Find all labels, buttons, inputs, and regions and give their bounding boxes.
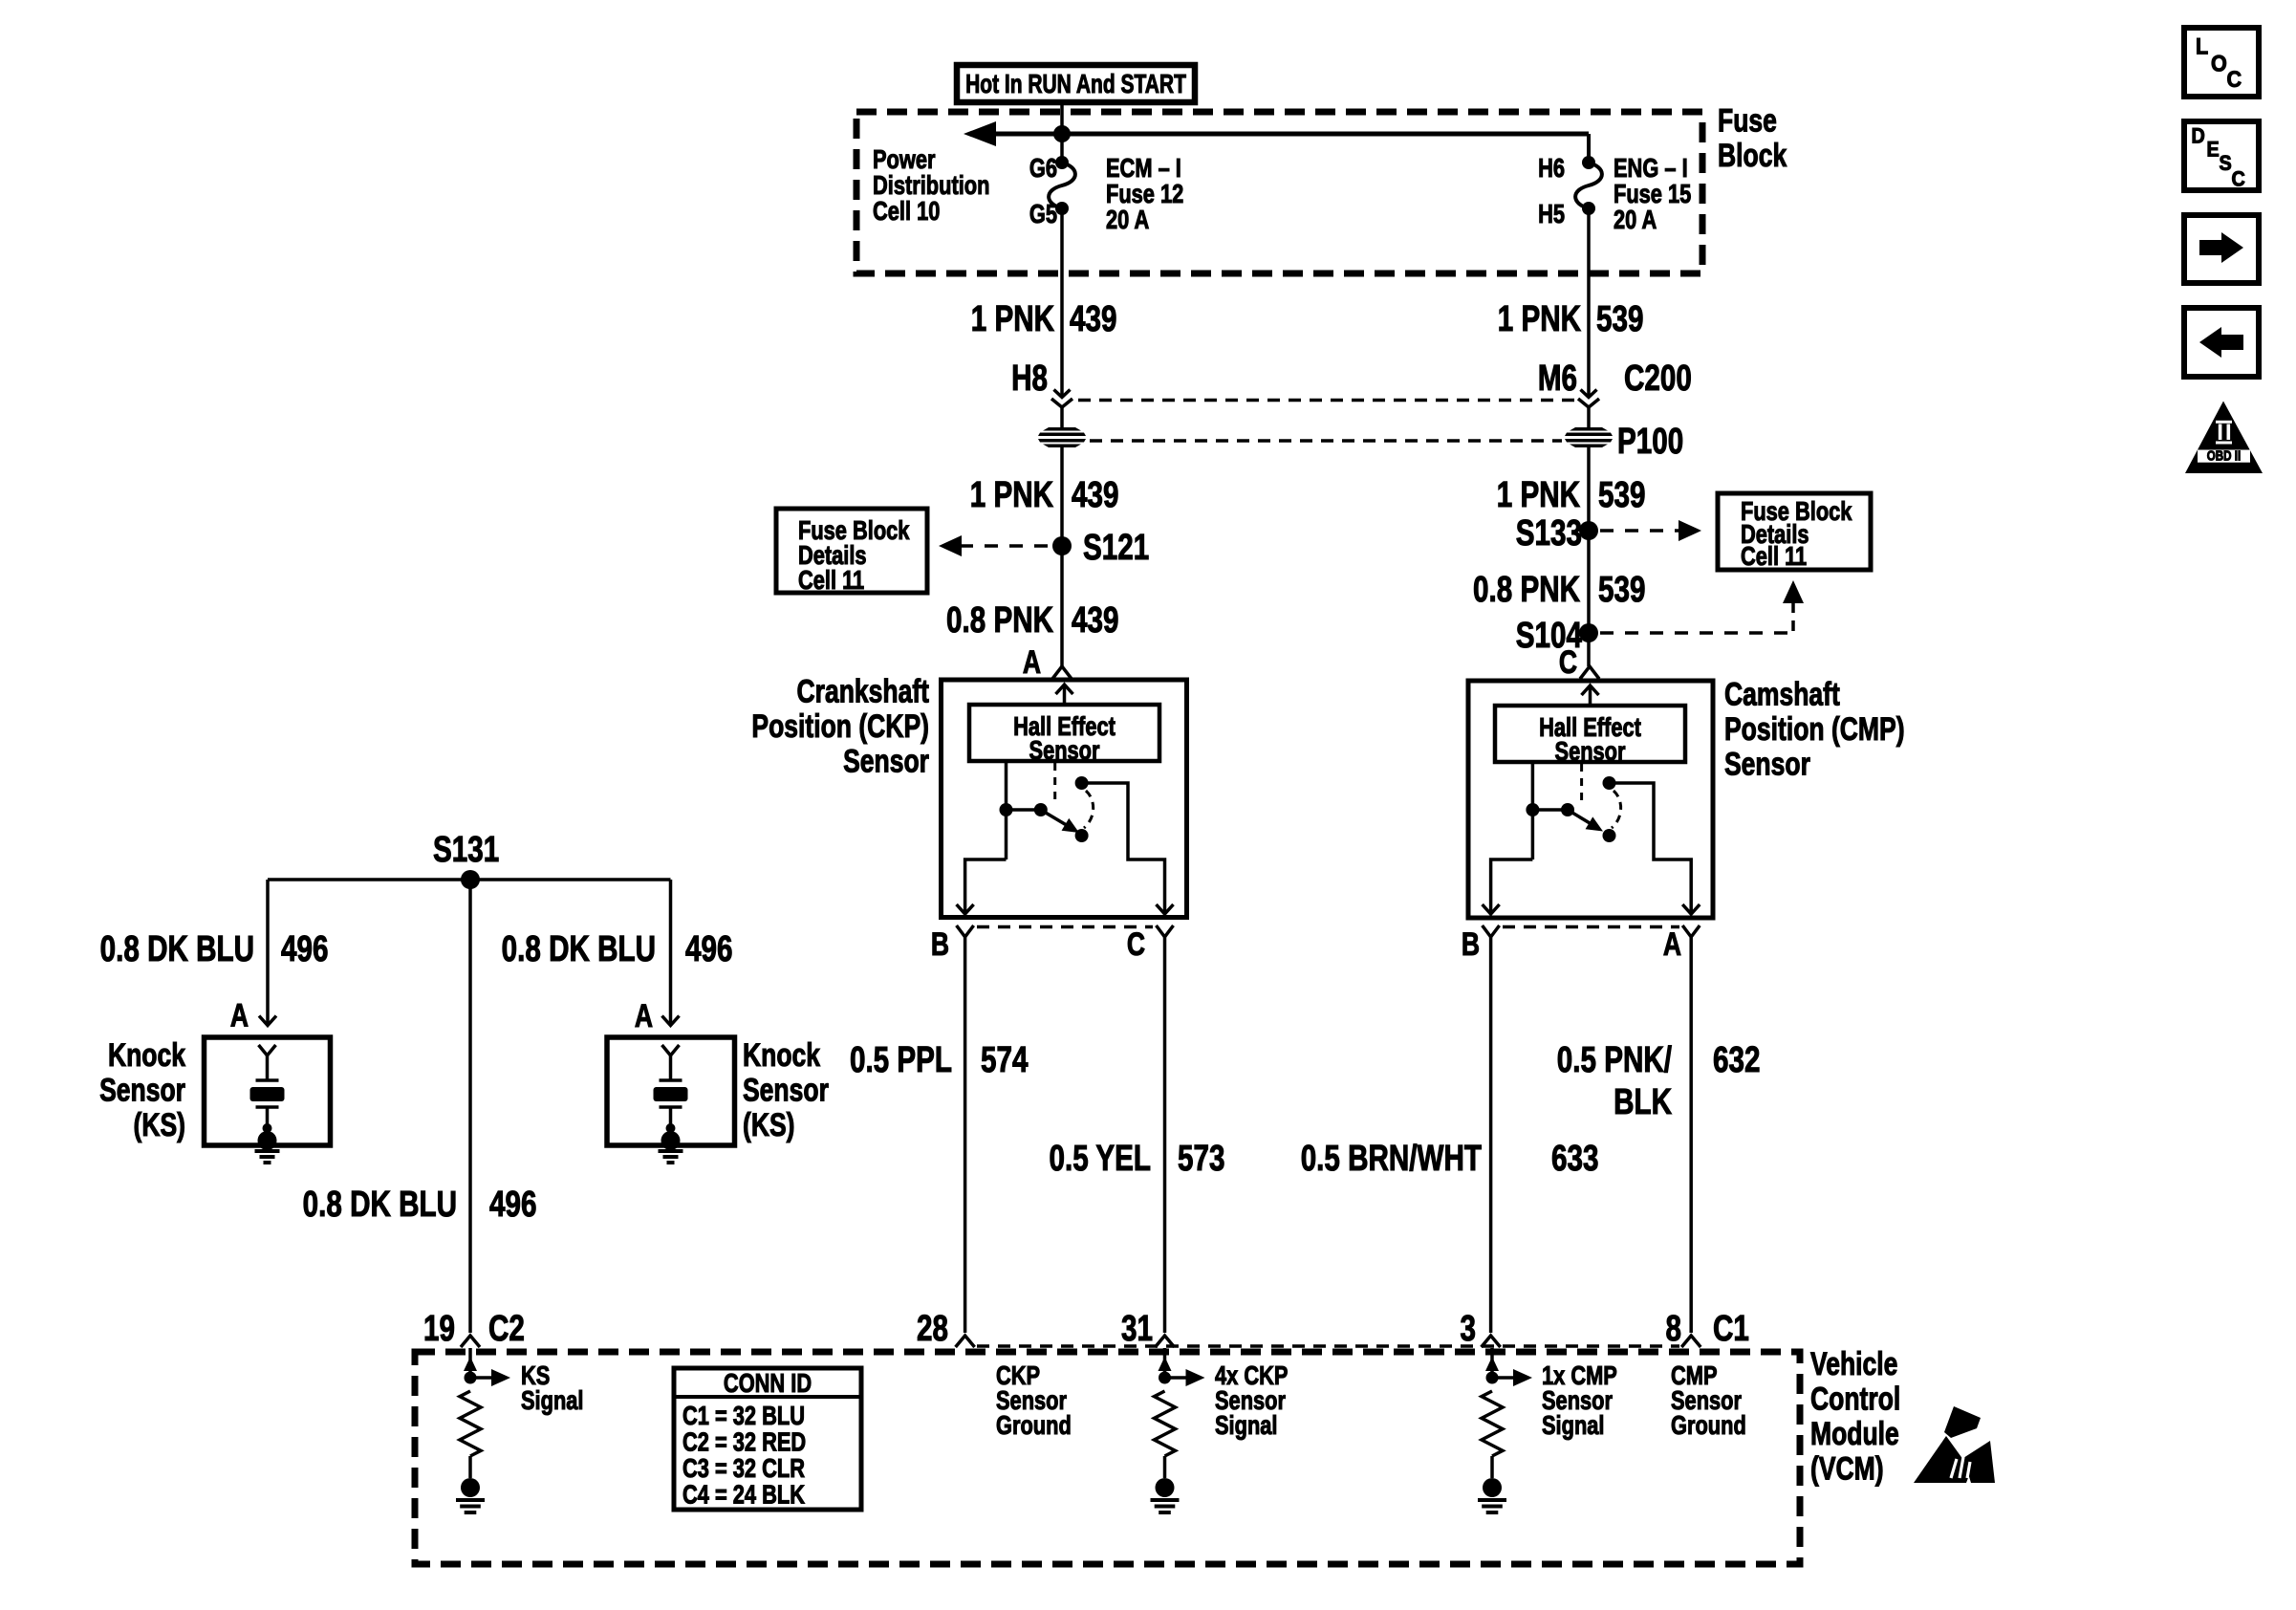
- label: power distribution cell 10: [873, 144, 989, 226]
- svg-text:G5: G5: [1029, 199, 1057, 228]
- svg-text:Cell 11: Cell 11: [1741, 541, 1807, 571]
- svg-text:Sensor: Sensor: [743, 1072, 829, 1108]
- CMP sensor label: [1724, 676, 1905, 782]
- label: M6 C200: [1538, 359, 1692, 399]
- wire: CMP pin B to VCM 3: [1489, 937, 1493, 1333]
- svg-text:496: 496: [281, 929, 328, 969]
- CKP sensor label: [751, 673, 929, 779]
- splice S104: [1516, 616, 1598, 656]
- connector P100 right symbol: [1565, 427, 1613, 447]
- svg-text:1 PNK: 1 PNK: [1498, 299, 1582, 339]
- svg-text:S: S: [2220, 152, 2232, 175]
- svg-text:439: 439: [1072, 475, 1118, 515]
- svg-text:20 A: 20 A: [1106, 205, 1149, 234]
- connector C200 dashed line: [1078, 399, 1575, 402]
- svg-text:0.8 DK BLU: 0.8 DK BLU: [303, 1185, 457, 1225]
- arrow into left knock sensor: [230, 997, 276, 1033]
- wire: knock sensor bus: [268, 880, 671, 1025]
- label: CMP Sensor Ground: [1671, 1360, 1746, 1440]
- svg-text:0.8 DK BLU: 0.8 DK BLU: [502, 929, 656, 969]
- pin 3: [1461, 1309, 1501, 1349]
- dashed arrow to left details box: [939, 535, 1051, 556]
- VCM connector dashed line: [977, 1344, 1679, 1348]
- wire: hot feed down from box: [1060, 102, 1064, 163]
- label: 1x CMP Sensor Signal: [1542, 1360, 1617, 1440]
- CKP sensor box: [942, 680, 1187, 918]
- svg-text:Position (CKP): Position (CKP): [751, 708, 929, 745]
- svg-text:3: 3: [1461, 1309, 1476, 1349]
- pin 28: [917, 1309, 975, 1349]
- svg-text:Signal: Signal: [1215, 1410, 1277, 1440]
- svg-text:CONN ID: CONN ID: [724, 1368, 812, 1398]
- ESD sensitivity icon: [1914, 1406, 1995, 1483]
- pin 8 C1: [1666, 1309, 1749, 1349]
- svg-text:S131: S131: [433, 830, 499, 870]
- svg-text:1 PNK: 1 PNK: [1497, 475, 1581, 515]
- svg-text:574: 574: [981, 1040, 1028, 1080]
- svg-text:0.5 BRN/WHT: 0.5 BRN/WHT: [1301, 1139, 1482, 1179]
- CMP internal switch circuit: [1483, 762, 1700, 914]
- icon: DESC box: [2184, 121, 2259, 191]
- svg-text:Module: Module: [1810, 1416, 1899, 1452]
- svg-text:C4 = 24 BLK: C4 = 24 BLK: [682, 1480, 805, 1510]
- icon: LOC box: [2184, 28, 2259, 97]
- knock sensor label (right): [743, 1037, 829, 1143]
- svg-text:19: 19: [423, 1309, 455, 1349]
- svg-text:H5: H5: [1538, 199, 1565, 228]
- svg-text:1 PNK: 1 PNK: [971, 299, 1055, 339]
- svg-text:H6: H6: [1538, 153, 1565, 183]
- svg-text:Block: Block: [1718, 138, 1787, 174]
- hall effect sensor box (CKP): [969, 705, 1159, 766]
- svg-text:Signal: Signal: [1542, 1410, 1604, 1440]
- svg-text:C2: C2: [488, 1309, 525, 1349]
- svg-text:B: B: [1462, 926, 1480, 963]
- CKP power arrow into hall box: [1056, 685, 1073, 705]
- svg-text:BLK: BLK: [1614, 1082, 1672, 1122]
- svg-text:0.5 PPL: 0.5 PPL: [850, 1040, 952, 1080]
- svg-text:Ground: Ground: [1671, 1410, 1746, 1440]
- CKP pins B and C: [931, 925, 1174, 963]
- svg-text:A: A: [1663, 926, 1681, 963]
- CONN ID table: [674, 1368, 861, 1510]
- dashed arrow from S104 up to details box: [1600, 580, 1804, 633]
- label: 0.8 DK BLU 496 (right): [502, 929, 733, 969]
- fuse block details callout box (right): [1718, 493, 1871, 572]
- connector C200 right terminals: [1578, 390, 1599, 428]
- connector P100 dashed line: [1090, 439, 1562, 443]
- svg-text:8: 8: [1666, 1309, 1681, 1349]
- fuse F15 ENG-I 20A (pins H6/H5): [1538, 153, 1691, 234]
- label: 1 PNK 439: [971, 299, 1117, 339]
- splice S131: [433, 830, 499, 889]
- svg-text:0.5 YEL: 0.5 YEL: [1049, 1139, 1151, 1179]
- wire: 0.8 PNK 439 down to CKP: [1060, 447, 1064, 666]
- svg-text:Vehicle: Vehicle: [1810, 1346, 1897, 1382]
- svg-text:C: C: [2232, 168, 2245, 191]
- svg-text:573: 573: [1178, 1139, 1224, 1179]
- svg-text:Sensor: Sensor: [1029, 735, 1100, 765]
- svg-text:C: C: [1559, 644, 1577, 681]
- svg-text:0.8 DK BLU: 0.8 DK BLU: [100, 929, 254, 969]
- wire: feed bus with left arrow: [964, 121, 1589, 163]
- svg-text:Cell 10: Cell 10: [873, 196, 940, 226]
- svg-text:0.5 PNK/: 0.5 PNK/: [1557, 1040, 1673, 1080]
- svg-text:A: A: [635, 998, 653, 1034]
- CMP sensor box: [1468, 681, 1713, 918]
- svg-text:O: O: [2211, 50, 2227, 76]
- knock sensor KS (left): [205, 1037, 331, 1163]
- label: 1 PNK 439 (below P100): [970, 475, 1119, 515]
- pin 19 C2: [423, 1309, 525, 1349]
- label: 4x CKP Sensor Signal: [1215, 1360, 1288, 1440]
- splice S133: [1516, 513, 1598, 554]
- arrow into right knock sensor: [635, 998, 680, 1034]
- connector P100 left symbol: [1038, 427, 1086, 447]
- pin A (CKP): [1023, 644, 1072, 681]
- icon: left arrow box: [2184, 308, 2259, 377]
- label: CKP Sensor Ground: [996, 1360, 1072, 1440]
- label: 0.5 YEL 573: [1049, 1139, 1224, 1179]
- CMP power arrow into hall box: [1582, 685, 1599, 706]
- svg-text:E: E: [2207, 139, 2220, 162]
- svg-text:439: 439: [1072, 600, 1118, 641]
- svg-text:M6: M6: [1538, 359, 1577, 399]
- svg-text:0.8 PNK: 0.8 PNK: [1473, 570, 1580, 610]
- svg-text:496: 496: [685, 929, 732, 969]
- fuse F12 ECM-I 20A (pins G6/G5): [1029, 153, 1183, 234]
- svg-text:Fuse: Fuse: [1718, 102, 1777, 139]
- fuse block name label: [1718, 102, 1787, 173]
- svg-text:1 PNK: 1 PNK: [970, 475, 1054, 515]
- svg-text:0.8 PNK: 0.8 PNK: [946, 600, 1053, 641]
- svg-text:Sensor: Sensor: [99, 1072, 185, 1108]
- label: 0.5 PNK/BLK 632: [1557, 1040, 1761, 1122]
- knock sensor label (left): [99, 1037, 185, 1143]
- svg-text:(KS): (KS): [743, 1107, 794, 1143]
- svg-text:C1: C1: [1713, 1309, 1749, 1349]
- svg-text:(VCM): (VCM): [1810, 1450, 1884, 1487]
- dashed arrow to right details box: [1600, 520, 1701, 541]
- label: 0.5 PPL 574: [850, 1040, 1029, 1080]
- wire: CMP pin A to VCM 8: [1689, 937, 1693, 1333]
- svg-text:539: 539: [1598, 570, 1645, 610]
- svg-text:Control: Control: [1810, 1381, 1900, 1417]
- wire: CKP pin C to VCM 31: [1163, 937, 1167, 1333]
- svg-text:Camshaft: Camshaft: [1724, 676, 1840, 712]
- label: 1 PNK 539 (below P100): [1497, 475, 1646, 515]
- label: 0.8 DK BLU 496 (center): [303, 1185, 537, 1225]
- svg-text:28: 28: [917, 1309, 948, 1349]
- node: feed junction: [1053, 125, 1071, 142]
- hall effect sensor box (CMP): [1495, 706, 1685, 767]
- svg-text:OBD II: OBD II: [2207, 447, 2241, 464]
- label: 1 PNK 539: [1498, 299, 1644, 339]
- power label box "Hot In RUN And START": [957, 65, 1195, 102]
- svg-text:S121: S121: [1083, 528, 1149, 568]
- icon: OBD II triangle: [2185, 402, 2263, 474]
- svg-text:Hot In RUN And START: Hot In RUN And START: [965, 70, 1186, 99]
- wire: PNK 539 from H5 to C200: [1587, 208, 1591, 396]
- svg-text:A: A: [1023, 644, 1041, 681]
- svg-text:Knock: Knock: [743, 1037, 820, 1074]
- svg-text:H8: H8: [1011, 359, 1048, 399]
- VCM name label: [1810, 1346, 1900, 1487]
- svg-text:20 A: 20 A: [1614, 205, 1657, 234]
- svg-text:496: 496: [489, 1185, 536, 1225]
- svg-text:B: B: [931, 926, 949, 963]
- wire: KS signal 496 down to VCM: [468, 880, 472, 1333]
- svg-text:Ground: Ground: [996, 1410, 1072, 1440]
- svg-text:(KS): (KS): [134, 1107, 185, 1143]
- svg-text:Sensor: Sensor: [1724, 746, 1810, 782]
- svg-text:632: 632: [1713, 1040, 1760, 1080]
- label: 0.8 PNK 439: [946, 600, 1118, 641]
- label: KS Signal: [521, 1360, 583, 1415]
- fuse block details callout box (left): [776, 509, 927, 596]
- wire: CKP pin B to VCM 28: [964, 937, 967, 1333]
- splice S121: [1052, 528, 1149, 568]
- svg-text:Signal: Signal: [521, 1385, 583, 1415]
- svg-text:Sensor: Sensor: [843, 743, 929, 779]
- svg-text:C: C: [1127, 926, 1145, 963]
- svg-text:A: A: [230, 997, 249, 1033]
- svg-text:Sensor: Sensor: [1555, 736, 1626, 766]
- knock sensor KS (right): [607, 1037, 735, 1163]
- icon: right arrow box: [2184, 215, 2259, 283]
- label: 0.8 DK BLU 496 (left): [100, 929, 329, 969]
- svg-text:31: 31: [1121, 1309, 1153, 1349]
- svg-text:Crankshaft: Crankshaft: [796, 673, 929, 709]
- fuse block dashed box: [856, 112, 1702, 273]
- label: 0.8 PNK 539: [1473, 570, 1645, 610]
- 1x CMP signal resistor to ground: [1478, 1348, 1532, 1512]
- 4x CKP signal resistor to ground: [1151, 1348, 1205, 1512]
- KS signal resistor to ground: [456, 1348, 510, 1512]
- svg-text:Cell 11: Cell 11: [798, 565, 864, 595]
- svg-text:D: D: [2192, 125, 2205, 148]
- wire: 539 down to CMP: [1587, 447, 1591, 666]
- wire: PNK 439 from G5 to C200: [1060, 208, 1064, 396]
- CMP pins B and A: [1462, 925, 1700, 963]
- pin 31: [1121, 1309, 1174, 1349]
- svg-text:C: C: [2227, 66, 2242, 92]
- svg-text:Knock: Knock: [108, 1037, 185, 1074]
- svg-text:633: 633: [1551, 1139, 1598, 1179]
- svg-text:P100: P100: [1617, 422, 1683, 462]
- svg-text:439: 439: [1070, 299, 1116, 339]
- svg-text:G6: G6: [1029, 153, 1057, 183]
- svg-text:L: L: [2196, 33, 2208, 58]
- CKP internal switch circuit: [957, 761, 1174, 914]
- svg-text:539: 539: [1598, 475, 1645, 515]
- svg-text:Position (CMP): Position (CMP): [1724, 711, 1905, 748]
- connector C200 left terminals: [1051, 390, 1072, 428]
- vehicle control module dashed box: [415, 1352, 1800, 1564]
- label: 0.5 BRN/WHT 633: [1301, 1139, 1599, 1179]
- svg-text:539: 539: [1596, 299, 1643, 339]
- svg-text:C200: C200: [1624, 359, 1692, 399]
- svg-text:S133: S133: [1516, 513, 1582, 554]
- pin C (CMP): [1559, 644, 1599, 681]
